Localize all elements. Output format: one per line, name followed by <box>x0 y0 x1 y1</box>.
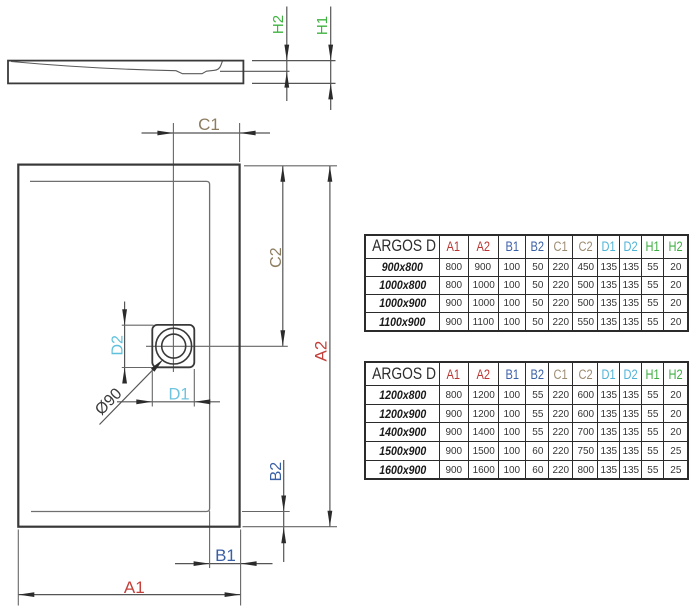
svg-text:B1: B1 <box>215 546 236 565</box>
svg-text:H2: H2 <box>270 15 287 34</box>
svg-text:B2: B2 <box>268 462 285 482</box>
svg-text:A2: A2 <box>312 341 331 362</box>
svg-text:C1: C1 <box>198 115 220 134</box>
svg-text:C2: C2 <box>268 247 285 268</box>
svg-text:D2: D2 <box>110 335 127 356</box>
svg-text:A1: A1 <box>124 578 145 597</box>
svg-text:Ø90: Ø90 <box>92 385 125 418</box>
svg-text:D1: D1 <box>168 386 189 404</box>
svg-text:H1: H1 <box>314 16 331 35</box>
